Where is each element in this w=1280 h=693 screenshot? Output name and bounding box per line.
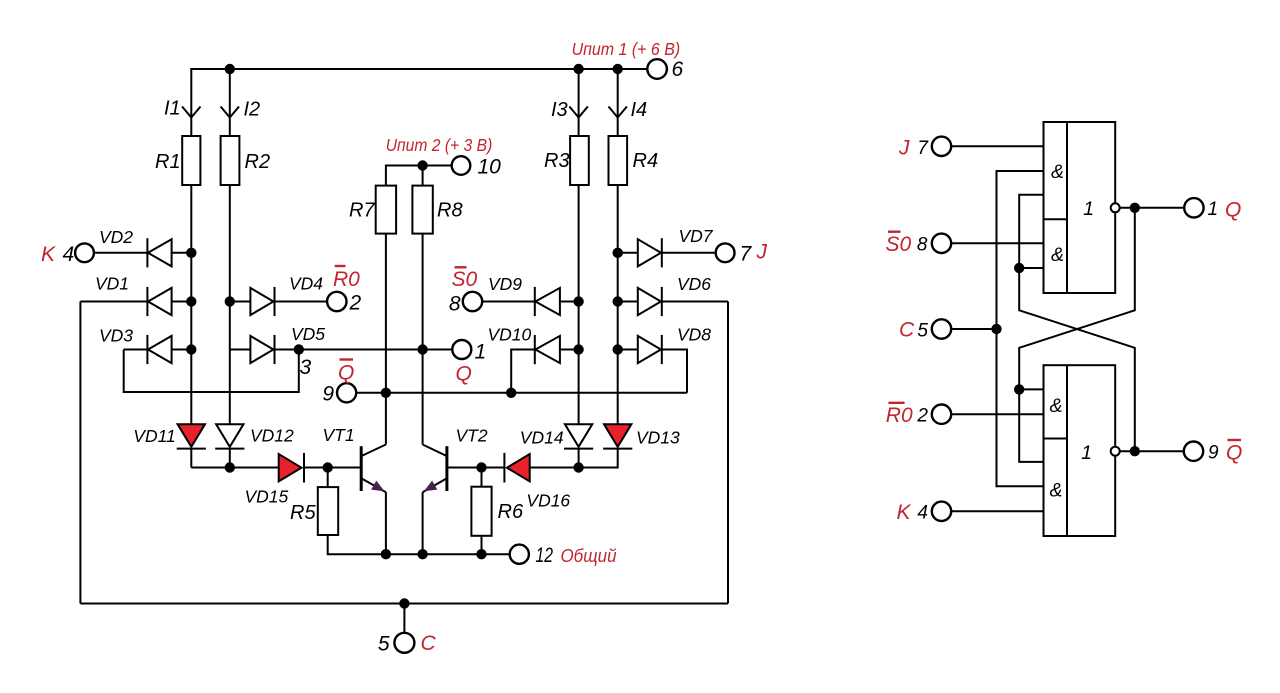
junction dots left schematic xyxy=(186,64,623,609)
resistor R2 xyxy=(221,136,240,185)
svg-text:J: J xyxy=(756,241,768,264)
diode VD11 (red) xyxy=(177,424,206,448)
wire right outer xyxy=(727,302,729,604)
junction VD1 xyxy=(186,296,196,306)
wire R5 top stub xyxy=(327,468,329,488)
svg-text:1: 1 xyxy=(1083,198,1094,220)
wire VD6 output to right outer xyxy=(662,301,728,303)
current arrow I2 xyxy=(221,107,239,118)
wire Q net xyxy=(299,349,453,351)
terminal J (7) right xyxy=(932,137,951,156)
wire R1 branch xyxy=(190,185,192,424)
svg-text:7: 7 xyxy=(917,138,929,159)
wire Qbar feedback branch xyxy=(1019,267,1043,269)
wire terminal 5 stub xyxy=(403,604,405,633)
svg-text:7: 7 xyxy=(740,243,753,266)
svg-text:VD6: VD6 xyxy=(677,274,711,294)
svg-text:I3: I3 xyxy=(551,99,568,121)
svg-text:8: 8 xyxy=(917,235,928,256)
junction bottom rail C xyxy=(399,598,409,608)
svg-text:VD2: VD2 xyxy=(99,227,133,247)
wire top power rail xyxy=(191,69,647,136)
junction C net xyxy=(991,324,1001,334)
svg-text:&: & xyxy=(1051,161,1064,183)
junction R6 top xyxy=(476,462,486,472)
wire C input xyxy=(951,328,996,330)
current arrow I3 xyxy=(569,107,587,118)
svg-text:S0: S0 xyxy=(886,233,912,256)
junction R8 top xyxy=(417,160,427,170)
wire VT2 base segment xyxy=(447,467,505,469)
wire K input xyxy=(951,510,1043,512)
wire VD14 bottom stub xyxy=(578,449,580,468)
junction Q net / R8 xyxy=(417,344,427,354)
terminal 9 xyxy=(337,383,356,402)
current arrow I1 xyxy=(182,107,200,118)
svg-text:4: 4 xyxy=(63,243,75,266)
svg-text:VD16: VD16 xyxy=(526,491,570,511)
svg-text:1: 1 xyxy=(1208,199,1219,220)
svg-text:VT1: VT1 xyxy=(323,425,355,445)
svg-text:R2: R2 xyxy=(245,151,271,173)
terminal K (4) right xyxy=(932,502,951,521)
svg-text:&: & xyxy=(1049,395,1062,417)
terminal 6 xyxy=(647,59,667,79)
svg-text:Q: Q xyxy=(456,363,472,386)
svg-text:2: 2 xyxy=(349,292,362,315)
wire VD3 cross-coupling loop to node 3 xyxy=(124,350,299,393)
diode VD12 xyxy=(215,424,244,448)
svg-text:Q: Q xyxy=(1226,442,1242,465)
svg-text:5: 5 xyxy=(378,633,390,656)
svg-text:I2: I2 xyxy=(244,99,261,121)
transistor VT1 xyxy=(361,445,386,493)
svg-text:9: 9 xyxy=(322,383,334,406)
svg-text:Uпит 1 (+ 6 В): Uпит 1 (+ 6 В) xyxy=(572,39,681,59)
svg-text:Q: Q xyxy=(1225,199,1241,222)
wire R7 top jog to terminal 10 xyxy=(386,166,452,186)
wire J input xyxy=(951,145,1043,147)
diode VD5 xyxy=(230,335,299,364)
arrow VT1 emitter xyxy=(371,481,384,492)
svg-text:C: C xyxy=(899,319,915,342)
svg-text:VD13: VD13 xyxy=(636,428,680,448)
svg-text:J: J xyxy=(898,137,910,160)
svg-text:12: 12 xyxy=(536,544,554,567)
junction Qbar output xyxy=(1130,446,1140,456)
inversion bubble Q xyxy=(1111,203,1120,212)
junction Q output xyxy=(1130,203,1140,213)
svg-text:5: 5 xyxy=(917,321,928,342)
svg-text:10: 10 xyxy=(478,156,502,179)
wire VD11 bottom stub xyxy=(190,449,192,468)
junction R6 bottom xyxy=(476,549,486,559)
junction VD4 xyxy=(225,296,235,306)
wire R4 top stub xyxy=(617,69,619,136)
svg-text:1: 1 xyxy=(475,341,487,364)
terminal 12 xyxy=(510,545,529,564)
wire R0 input xyxy=(951,413,1043,415)
wire VT1 base segment xyxy=(191,467,278,469)
svg-text:VT2: VT2 xyxy=(456,426,488,446)
wire emitter rail xyxy=(328,535,510,554)
diode VD6 xyxy=(618,287,662,316)
junction rail R4 xyxy=(613,64,623,74)
svg-text:&: & xyxy=(1051,244,1064,266)
svg-text:VD1: VD1 xyxy=(95,274,129,294)
terminal 1 xyxy=(452,340,471,359)
junction VD10 xyxy=(573,344,583,354)
junction VD2 xyxy=(186,248,196,258)
junction VT1 base xyxy=(323,462,333,472)
junction VD12 xyxy=(225,462,235,472)
svg-text:C: C xyxy=(421,632,437,655)
wire R3 branch xyxy=(578,185,580,424)
diode VD14 xyxy=(564,424,593,448)
resistor R4 xyxy=(609,136,628,185)
wire R6 top stub xyxy=(481,468,483,487)
svg-text:2: 2 xyxy=(916,406,928,427)
junction VD9 xyxy=(573,296,583,306)
junction VD6 xyxy=(613,296,623,306)
svg-text:VD11: VD11 xyxy=(133,426,175,446)
svg-text:8: 8 xyxy=(449,293,461,316)
junction Qbar fb top xyxy=(1014,263,1024,273)
svg-text:&: & xyxy=(1049,480,1062,502)
svg-text:VD8: VD8 xyxy=(677,325,711,345)
junction VD14 xyxy=(573,462,583,472)
svg-text:I1: I1 xyxy=(164,98,181,120)
svg-text:1: 1 xyxy=(1081,442,1092,464)
svg-text:S0: S0 xyxy=(452,268,478,291)
wire R7 bottom / VT1 collector xyxy=(385,234,387,445)
junction VD3 xyxy=(186,344,196,354)
terminal Qbar output (9) xyxy=(1184,442,1203,461)
wire C net vertical xyxy=(997,171,1044,486)
current arrow I4 xyxy=(609,107,627,118)
wire R6 bottom stub xyxy=(481,536,483,554)
wire Q output xyxy=(1120,207,1185,209)
terminal R0 (2) right xyxy=(932,405,951,424)
svg-text:R4: R4 xyxy=(633,150,659,172)
svg-text:K: K xyxy=(897,501,912,524)
resistor R5 xyxy=(318,487,338,535)
terminal C (5) right xyxy=(932,319,951,338)
arrow VT2 emitter xyxy=(424,481,437,492)
svg-text:VD4: VD4 xyxy=(289,274,323,294)
wire VD16 to R4 corner xyxy=(530,449,618,468)
diode VD3 xyxy=(124,335,192,364)
svg-text:R8: R8 xyxy=(437,200,463,222)
terminal K (4) xyxy=(75,243,94,262)
svg-text:VD5: VD5 xyxy=(291,324,325,344)
wire R8 top stub xyxy=(422,166,424,186)
wire R2 branch xyxy=(229,185,231,424)
diode VD2 xyxy=(94,238,191,267)
diode VD9 xyxy=(482,287,578,316)
svg-text:9: 9 xyxy=(1208,443,1219,464)
wire left outer xyxy=(79,302,81,604)
wire VT1 emitter vertical xyxy=(385,492,387,554)
transistor VT2 xyxy=(423,445,447,493)
wire R2 top stub xyxy=(229,69,231,136)
svg-text:Q: Q xyxy=(338,362,354,385)
resistor R7 xyxy=(376,186,396,234)
svg-text:R7: R7 xyxy=(349,200,375,222)
junction Qbar / R7 xyxy=(381,388,391,398)
terminal 10 xyxy=(452,156,471,175)
wire Q feedback branch xyxy=(1019,388,1043,390)
wire VD8 loop xyxy=(662,350,687,393)
wire VD12 bottom stub xyxy=(229,449,231,468)
junction Qbar / VD10 xyxy=(506,388,516,398)
terminal 2 xyxy=(327,292,346,311)
terminal S0 (8) right xyxy=(932,234,951,253)
junction VD5 / node 3 xyxy=(294,344,304,354)
svg-text:6: 6 xyxy=(672,58,684,81)
resistor R6 xyxy=(471,487,491,536)
wire Qbar output xyxy=(1120,450,1184,452)
junction Q fb bottom xyxy=(1014,384,1024,394)
wire S0 input xyxy=(951,242,1043,244)
wire Qbar feedback xyxy=(1019,195,1135,451)
svg-text:4: 4 xyxy=(917,503,928,524)
wire R3 top stub xyxy=(578,69,580,136)
wire VT2 emitter vertical xyxy=(422,492,424,554)
wire R4 branch xyxy=(617,185,619,424)
diode VD7 xyxy=(618,238,716,267)
terminal 7 xyxy=(716,243,735,262)
svg-text:R3: R3 xyxy=(544,150,570,172)
svg-text:VD12: VD12 xyxy=(250,426,294,446)
terminal 8 xyxy=(463,292,482,311)
wire R8 bottom / VT2 collector xyxy=(422,234,424,445)
resistor R3 xyxy=(570,136,589,185)
svg-text:R1: R1 xyxy=(155,151,181,173)
svg-text:R0: R0 xyxy=(886,404,913,427)
diode VD4 xyxy=(230,287,327,316)
junction VD7 xyxy=(613,248,623,258)
diode VD10 xyxy=(535,335,579,364)
svg-text:VD7: VD7 xyxy=(679,226,714,246)
wire VD10 loop xyxy=(511,350,535,393)
svg-text:K: K xyxy=(41,243,56,266)
svg-text:I4: I4 xyxy=(631,99,648,121)
terminal 5 (C) xyxy=(394,633,414,653)
svg-text:R0: R0 xyxy=(333,268,360,291)
svg-text:VD10: VD10 xyxy=(488,325,532,345)
svg-text:VD3: VD3 xyxy=(99,326,133,346)
inversion bubble Qbar xyxy=(1111,447,1120,456)
wire VD15 to VT1 base xyxy=(304,467,361,469)
junction VT2 emitter xyxy=(417,549,427,559)
wire Q feedback xyxy=(1019,208,1135,462)
svg-text:VD15: VD15 xyxy=(245,487,289,507)
terminal Q output (1) xyxy=(1184,198,1203,217)
gate DD1 box xyxy=(1044,122,1116,293)
svg-text:R6: R6 xyxy=(498,501,524,523)
diode VD1 xyxy=(80,287,191,316)
wire Qbar net xyxy=(356,392,687,394)
diode VD16 (red) xyxy=(504,453,529,483)
junction rail R2 xyxy=(225,64,235,74)
svg-text:3: 3 xyxy=(300,356,312,379)
svg-text:Uпит 2 (+ 3 В): Uпит 2 (+ 3 В) xyxy=(386,135,493,155)
svg-text:VD14: VD14 xyxy=(520,428,564,448)
gate DD2 box xyxy=(1044,365,1116,536)
wire bottom rail xyxy=(80,603,728,605)
resistor R1 xyxy=(182,136,200,185)
resistor R8 xyxy=(412,186,432,234)
diode VD13 (red) xyxy=(603,424,632,448)
junction VT1 emitter xyxy=(381,549,391,559)
diode VD8 xyxy=(618,335,662,364)
diode VD15 (red) xyxy=(279,453,304,483)
junction rail R3 xyxy=(573,64,583,74)
junction VD8 xyxy=(613,344,623,354)
svg-text:R5: R5 xyxy=(290,502,316,524)
svg-text:VD9: VD9 xyxy=(488,274,522,294)
svg-text:Общий: Общий xyxy=(561,546,617,566)
